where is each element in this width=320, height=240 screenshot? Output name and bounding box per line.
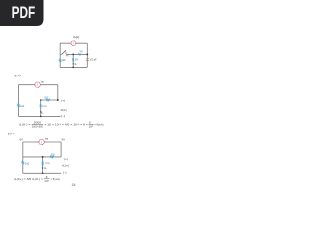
svg-text:1/4: 1/4 [72,183,76,187]
svg-text:t=0: t=0 [66,55,69,58]
svg-text:at t = 0-: at t = 0- [15,74,21,78]
svg-text:iL(0-) =: iL(0-) = [19,123,31,127]
arrow iL circuit2 [40,111,41,113]
resistor R1 (circuit1 left) [59,59,61,62]
svg-text:vL(∞): vL(∞) [62,164,69,168]
current source I2 [35,82,40,87]
wire: circuit 2 middle branch [40,100,42,116]
resistor R2 500 (circuit1 rail) [78,54,81,55]
svg-text:2kΩ: 2kΩ [62,58,66,62]
inductor L3 (circuit3 middle) [42,162,44,166]
svg-text:PDF: PDF [12,4,36,22]
equation iL(0-) [19,121,104,129]
svg-text:0V: 0V [62,137,65,141]
svg-text:(-): (-) [63,170,67,174]
node: circuit3 rail-middle junction [42,156,44,158]
svg-text:× 10 × 10-³ = 4/5 × 10-² = 8 ×: × 10 × 10-³ = 4/5 × 10-² = 8 × [44,123,88,127]
wire: circuit 3 middle branch [42,157,44,173]
node: circuit3 middle-bottom junction [42,172,44,174]
inductor L1 (circuit1 middle) [72,58,74,61]
resistor R7 500 (circuit3 rail) [50,156,54,158]
wire: circuit 2 bottom [19,115,61,117]
resistor R6 (circuit3 left) 2k [22,161,24,164]
current source I1 [71,41,76,46]
svg-text:10³: 10³ [44,179,48,183]
svg-text:500: 500 [51,152,56,156]
wire: circuit 3 middle rail [23,156,61,158]
svg-text:(+): (+) [61,98,65,102]
svg-text:at t = ∞: at t = ∞ [8,132,14,136]
svg-text:iL: iL [44,167,47,170]
svg-text:(+): (+) [64,157,68,161]
svg-text:0V: 0V [20,138,23,142]
svg-text:(-): (-) [61,114,65,118]
PDF badge [0,0,44,26]
resistor R5 500 (circuit2 rail) [46,99,50,101]
svg-text:2 mH: 2 mH [45,161,49,165]
node: circuit2 rail-right junction [57,99,59,101]
wire: circuit 3 left side [22,142,24,173]
svg-text:500: 500 [44,95,49,99]
wire: circuit 1 middle rail [60,53,87,55]
capacitor C1 [86,59,89,61]
wire: circuit 3 top [23,141,61,143]
wire: circuit 1 right side [86,43,88,67]
wire: circuit 1 bottom [60,66,87,68]
node: circuit2 rail-left corner [40,99,42,101]
wire: circuit 2 right side upper [57,85,59,100]
svg-text:is(t): is(t) [73,35,79,39]
svg-text:2 kΩ: 2 kΩ [20,104,24,108]
wire: circuit 2 top [19,84,58,86]
node: circuit1 middle-bottom junction [72,67,74,69]
inductor L2 (circuit2 middle) [40,104,42,107]
svg-text:is: is [45,136,49,140]
arrow iL circuit3 [42,167,43,169]
svg-text:2 kΩ: 2 kΩ [25,161,30,165]
arrow iL circuit1 [73,63,74,65]
svg-text:= 8(mA): = 8(mA) [51,177,60,181]
wire: circuit 1 left side [59,43,61,67]
svg-text:= 8(mA): = 8(mA) [94,123,103,127]
svg-text:2 mH: 2 mH [42,104,46,108]
equation iL(0+) [14,175,60,183]
switch S1 [62,50,66,54]
svg-text:is: is [41,80,45,84]
svg-text:iL(0+) = 8/5 iL(0-) =: iL(0+) = 8/5 iL(0-) = [14,177,43,181]
wire: circuit 3 right side upper [60,142,62,157]
resistor R4 (circuit2 left) 2k [18,104,20,107]
wire: circuit 1 middle branch [72,54,74,67]
svg-text:10³: 10³ [89,125,93,129]
wire: circuit 3 bottom [23,172,61,174]
node: circuit1 rail-middle junction [72,54,74,56]
current source I3 [39,139,44,144]
wire: circuit 1 top [60,42,87,44]
svg-text:2H: 2H [75,57,79,61]
wire: circuit 2 left side [18,85,20,117]
svg-text:vR(0-): vR(0-) [60,108,66,112]
svg-text:500: 500 [80,51,84,54]
node: circuit2 middle-bottom junction [40,116,42,118]
svg-text:100 μF: 100 μF [89,58,97,62]
wire: circuit 2 inner rail [41,99,58,101]
node: circuit1 rail-right junction [86,53,88,55]
svg-text:iL: iL [75,63,78,66]
svg-text:2000+500: 2000+500 [32,125,44,129]
svg-text:iL: iL [41,111,44,114]
